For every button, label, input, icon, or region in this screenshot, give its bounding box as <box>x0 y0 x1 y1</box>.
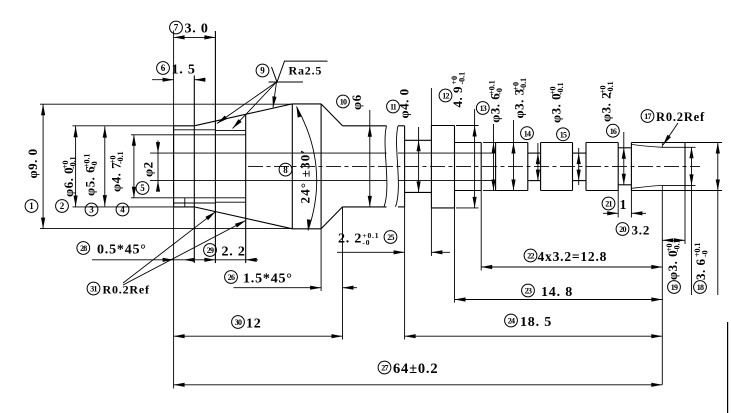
groove4 right face / end section left face <box>630 143 632 191</box>
centerline <box>248 165 700 167</box>
svg-text:R0.2Ref: R0.2Ref <box>656 110 705 124</box>
phi4 neck bottom edge <box>405 191 432 193</box>
label 15 <box>549 82 570 140</box>
dim 23 line <box>455 297 663 301</box>
dim 4 phi4.7 line <box>132 135 136 198</box>
groove1 left face <box>480 143 482 191</box>
left face <box>173 126 175 207</box>
phi6 cylinder bottom edge <box>343 206 405 208</box>
dim 2 phi6.0 label <box>56 156 78 212</box>
leader 31b <box>123 221 246 286</box>
left cylinder bottom edge <box>174 206 195 208</box>
dim 21 line <box>603 211 646 215</box>
phi3.6 section top edge <box>455 142 482 144</box>
angle arc <box>297 107 317 231</box>
groove3 right face <box>585 143 587 191</box>
phi9 extension top <box>40 103 292 105</box>
ext left face down <box>173 37 175 388</box>
svg-text:10: 10 <box>340 98 347 107</box>
ext 631 down <box>630 191 632 218</box>
big cylinder bottom edge <box>292 228 321 230</box>
ext 685 down <box>684 191 686 245</box>
dim 18 line <box>716 143 720 296</box>
svg-text:φ4. 0: φ4. 0 <box>397 88 412 118</box>
svg-text:2. 2: 2. 2 <box>338 232 362 247</box>
land D bottom edge <box>586 190 618 192</box>
dim 30 line <box>174 334 343 338</box>
bore phi4.7 line bottom <box>131 197 246 199</box>
label 31 <box>87 282 150 296</box>
svg-text:24° ±30′: 24° ±30′ <box>298 149 313 204</box>
ext 19 bottom <box>662 184 695 186</box>
svg-text:17: 17 <box>644 112 651 121</box>
dim 25 label <box>338 231 397 247</box>
ext 19 top <box>662 146 695 148</box>
svg-text:12: 12 <box>442 92 449 101</box>
dim 24 line <box>481 265 662 269</box>
svg-text:φ5. 6: φ5. 6 <box>83 166 98 196</box>
cone big end edge <box>291 104 293 229</box>
svg-text:-0: -0 <box>495 88 504 95</box>
groove2 right face <box>540 143 542 191</box>
groove4 top edge <box>618 147 631 149</box>
svg-text:φ9. 0: φ9. 0 <box>25 148 40 178</box>
dim 28 label <box>77 242 147 258</box>
svg-text:64±0.2: 64±0.2 <box>393 361 438 377</box>
label 9 circle <box>256 64 269 77</box>
svg-text:26: 26 <box>228 273 235 282</box>
label 18 <box>693 242 710 293</box>
end section right face <box>684 143 686 191</box>
dim 16 line <box>622 132 626 185</box>
dim 30 label <box>232 316 262 332</box>
svg-text:R0.2Ref: R0.2Ref <box>103 283 150 297</box>
dim 15 line <box>536 143 540 181</box>
dim 29 label <box>204 244 246 260</box>
Ra2.5 text <box>289 64 323 78</box>
svg-text:14. 8: 14. 8 <box>541 285 573 300</box>
bore mid line top <box>215 130 245 132</box>
label 10 <box>337 94 364 110</box>
dim 22 line <box>405 334 663 338</box>
svg-text:22: 22 <box>527 252 534 261</box>
tall land bottom edge <box>431 207 454 209</box>
svg-text:19: 19 <box>671 283 678 292</box>
groove3 bottom edge <box>573 180 587 182</box>
svg-text:6: 6 <box>161 63 166 73</box>
phi6 cylinder top edge <box>343 125 405 127</box>
tall land right face <box>454 126 456 208</box>
svg-text:φ2: φ2 <box>141 161 156 177</box>
dim 23 label <box>522 284 573 300</box>
dim 1 phi9.0 label <box>25 148 40 212</box>
ext 342 down <box>342 207 344 340</box>
leader 9b <box>233 82 277 129</box>
dim 27 line <box>174 383 663 387</box>
dim 5 phi2 label <box>136 161 155 194</box>
tall land top edge <box>431 125 454 127</box>
dim 7 label <box>170 21 209 36</box>
label 17 <box>641 110 705 124</box>
svg-text:3: 3 <box>89 205 94 215</box>
groove1 right face <box>495 143 497 191</box>
svg-text:23: 23 <box>525 287 532 296</box>
bore step at 1.5 <box>193 76 195 264</box>
svg-text:-0.1: -0.1 <box>556 82 565 95</box>
svg-text:8: 8 <box>283 165 288 175</box>
bore phi4.7 line top <box>131 134 246 136</box>
dim 27 label <box>378 361 438 377</box>
svg-text:-0.1: -0.1 <box>606 81 615 94</box>
svg-text:7: 7 <box>174 23 179 33</box>
svg-text:2. 2: 2. 2 <box>222 245 246 260</box>
dim 15b arrows groove3 <box>577 148 581 185</box>
svg-text:4: 4 <box>120 205 125 215</box>
bore phi5.6 line top <box>174 129 216 131</box>
phi9 extension bottom <box>40 228 292 230</box>
dim 26 line <box>234 286 358 290</box>
end section bottom edge <box>631 190 685 192</box>
svg-text:20: 20 <box>619 225 626 234</box>
svg-text:31: 31 <box>90 285 97 294</box>
dim 6 label <box>157 62 196 78</box>
svg-text:4x3.2=12.8: 4x3.2=12.8 <box>538 249 608 264</box>
svg-text:5: 5 <box>140 183 145 193</box>
ext 18 bottom <box>685 190 722 192</box>
dim 19 line <box>689 147 693 295</box>
svg-text:-0.1: -0.1 <box>68 156 77 169</box>
svg-text:-0: -0 <box>90 161 99 168</box>
step face phi6 to phi4 <box>404 126 406 207</box>
svg-text:25: 25 <box>387 233 394 242</box>
phi4 neck top edge <box>405 139 432 141</box>
land B top edge <box>496 142 528 144</box>
label 12 <box>439 72 466 108</box>
angle text <box>298 149 313 204</box>
dim 12 line <box>473 109 477 208</box>
bore mid line bottom <box>215 201 245 203</box>
land C bottom edge <box>541 190 573 192</box>
ext 404 down <box>404 207 406 340</box>
dim 24 label <box>524 249 607 264</box>
groove4 left face <box>617 143 619 191</box>
svg-text:3. 0: 3. 0 <box>185 22 209 37</box>
dim 25 line <box>337 250 450 254</box>
slit stub lower half <box>184 198 186 207</box>
ext 18 top <box>685 142 722 144</box>
groove2 left face <box>527 143 529 191</box>
svg-text:3.2: 3.2 <box>632 223 651 238</box>
roughness symbol <box>269 61 328 82</box>
ext 618 down <box>617 191 619 218</box>
svg-text:Ra2.5: Ra2.5 <box>289 64 323 78</box>
svg-text:15: 15 <box>560 131 567 140</box>
svg-text:1: 1 <box>29 201 34 211</box>
svg-text:1: 1 <box>620 198 628 213</box>
bore phi2 line bottom <box>150 180 496 182</box>
break line right <box>396 126 399 207</box>
groove3 left face <box>572 143 574 191</box>
dim 13 ext stubs <box>483 143 498 191</box>
leader 17 <box>663 123 678 145</box>
svg-text:φ3. 0: φ3. 0 <box>665 250 680 280</box>
ext 454 down <box>454 208 456 303</box>
bore step at 3.0 <box>214 31 216 263</box>
break line left <box>384 126 387 207</box>
svg-text:φ3. 2: φ3. 2 <box>598 92 613 122</box>
big cylinder right face <box>320 104 322 229</box>
dim 3 phi5.6 line <box>103 126 107 206</box>
svg-text:16: 16 <box>610 127 617 136</box>
dim 13 line <box>491 124 495 191</box>
svg-text:30: 30 <box>235 318 242 327</box>
label 11 <box>387 88 412 118</box>
svg-text:φ3. 3: φ3. 3 <box>512 88 527 118</box>
svg-text:φ6. 0: φ6. 0 <box>61 167 76 197</box>
left cylinder top edge <box>174 125 195 127</box>
dim 2 phi6.0 line <box>74 126 78 207</box>
dim 3 phi5.6 label <box>83 153 100 215</box>
ext 662 down <box>661 190 663 384</box>
dim 11 phi4 line <box>417 127 421 192</box>
groove2 top edge <box>528 152 541 154</box>
groove4 bottom edge <box>618 184 631 186</box>
end taper bottom <box>631 185 662 190</box>
dim 20 label <box>616 223 650 238</box>
cone bottom edge <box>194 207 292 229</box>
ext 431 down <box>430 208 432 256</box>
land B bottom edge <box>496 190 528 192</box>
land D top edge <box>586 142 618 144</box>
svg-text:9: 9 <box>260 66 265 76</box>
svg-text:27: 27 <box>381 364 388 373</box>
dim 7 3.0 line <box>174 35 216 39</box>
svg-text:-0: -0 <box>362 238 370 247</box>
leader 12 <box>430 88 432 126</box>
phi3.6 section bottom edge <box>455 190 482 192</box>
dim 20 line <box>662 238 685 242</box>
dim 4 phi4.7 label <box>109 151 129 216</box>
svg-text:φ4. 7: φ4. 7 <box>109 162 124 192</box>
dim 14 line <box>511 120 515 191</box>
land C top edge <box>541 142 573 144</box>
end taper top <box>631 143 662 148</box>
svg-text:13: 13 <box>480 104 487 113</box>
label 8 <box>279 163 292 176</box>
svg-text:12: 12 <box>246 317 262 332</box>
groove3 top edge <box>573 152 587 154</box>
slit edge <box>245 114 247 263</box>
dim 21 label <box>602 197 627 213</box>
dim 26 label <box>225 271 293 287</box>
ext 321 down <box>320 229 322 291</box>
leader 9c <box>272 82 276 108</box>
leader 9a <box>217 82 277 124</box>
svg-text:-0.1: -0.1 <box>116 151 125 164</box>
svg-text:φ3. 6: φ3. 6 <box>488 93 503 123</box>
svg-text:28: 28 <box>80 244 87 253</box>
bore phi2 line top <box>150 152 496 154</box>
bore phi5.6 line bottom <box>174 202 216 204</box>
svg-text:4. 9: 4. 9 <box>450 86 465 108</box>
cone top edge <box>194 104 292 126</box>
dim 5 phi2 line <box>156 141 160 192</box>
leader 31a <box>123 212 215 283</box>
label 16 <box>598 81 619 137</box>
dim 1 phi9.0 line <box>41 104 45 228</box>
phi6.0 extension top <box>73 125 174 127</box>
svg-text:1.5*45°: 1.5*45° <box>243 272 293 287</box>
svg-text:24: 24 <box>508 317 515 326</box>
dim 12 ext stubs <box>456 126 479 208</box>
big cylinder top edge <box>292 103 321 105</box>
svg-text:14: 14 <box>524 129 531 138</box>
svg-text:2: 2 <box>60 201 65 211</box>
svg-text:29: 29 <box>207 246 214 255</box>
groove2 bottom edge <box>528 180 541 182</box>
label 14 <box>512 78 534 140</box>
label 19 <box>665 239 682 293</box>
label 13 <box>476 80 504 123</box>
dim 6 1.5 line <box>152 78 206 82</box>
ext 481 down <box>480 191 482 271</box>
tall land left face <box>430 126 432 208</box>
svg-text:-0: -0 <box>701 250 710 257</box>
svg-text:18: 18 <box>697 283 704 292</box>
svg-text:φ3. 0: φ3. 0 <box>549 93 564 123</box>
svg-text:-0.1: -0.1 <box>458 72 467 85</box>
svg-text:3. 6: 3. 6 <box>693 259 708 281</box>
dim 22 label <box>505 314 552 330</box>
dim 28 29 line <box>92 258 258 262</box>
svg-text:21: 21 <box>605 200 612 209</box>
frame line <box>727 322 729 413</box>
extension left face up <box>173 31 175 38</box>
svg-text:18. 5: 18. 5 <box>520 315 552 330</box>
phi6.0 extension bottom <box>73 206 174 208</box>
chamfer 1.5x45 top <box>321 104 342 126</box>
end section top edge <box>631 142 685 144</box>
svg-text:-0.1: -0.1 <box>519 78 528 91</box>
svg-text:0.5*45°: 0.5*45° <box>97 243 147 258</box>
svg-text:1. 5: 1. 5 <box>172 63 196 78</box>
svg-text:φ6: φ6 <box>349 94 364 110</box>
chamfer 1.5x45 bottom <box>321 207 342 229</box>
dim 10 phi6 line <box>368 110 372 207</box>
